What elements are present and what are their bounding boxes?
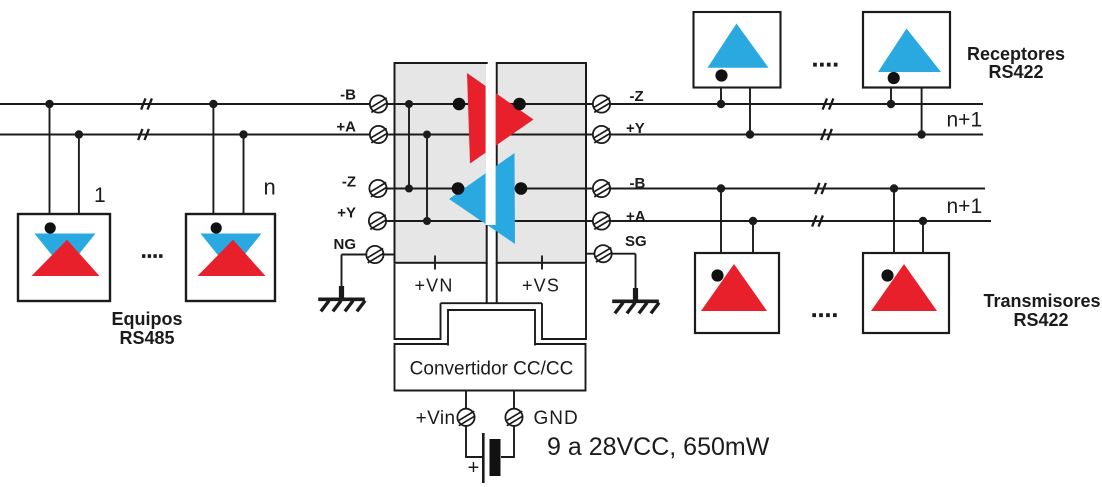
svg-text:1: 1 <box>94 184 106 207</box>
wire cross-link -B/-Z <box>408 104 410 189</box>
terminal -Z right <box>593 95 610 112</box>
junction dot -B / transmisor n+1 <box>890 184 898 192</box>
wire equipo n pin A <box>243 135 245 216</box>
wire receptor 1 pin Y <box>749 88 751 135</box>
driver triangle red (left to right) <box>467 73 534 164</box>
wire transmisor 1 pin B <box>720 189 722 254</box>
svg-text:SG: SG <box>625 233 647 250</box>
pin +VS tick <box>541 256 543 270</box>
wire receptor 1 pin Z <box>720 88 722 104</box>
wire +Y to +A through converter <box>370 220 991 222</box>
junction dot cross-link top <box>405 100 413 108</box>
equipo RS485 box n <box>186 214 275 301</box>
neck to converter <box>448 310 535 346</box>
junction dot blue input <box>515 182 528 195</box>
terminal +Y left <box>369 212 386 229</box>
wire receptor n+1 pin Y <box>921 88 923 135</box>
svg-text:n+1: n+1 <box>947 195 983 218</box>
wire GND from converter <box>513 391 515 410</box>
wire NG stub <box>342 255 395 288</box>
junction dot +A / equipo 1 <box>75 130 83 138</box>
wire +A bus (left, y=134.5) <box>0 134 488 136</box>
svg-text:+Vin: +Vin <box>416 408 456 429</box>
transmisor RS422 box n+1 <box>863 253 949 333</box>
wire equipo n pin B <box>212 104 214 215</box>
gap border right extension <box>496 263 498 303</box>
wire GND to battery <box>501 426 514 457</box>
svg-text:Transmisores: Transmisores <box>983 291 1100 311</box>
terminal GND <box>505 409 522 426</box>
svg-text:+: + <box>468 457 480 479</box>
terminal +Y right <box>593 126 610 143</box>
svg-text:-B: -B <box>340 87 356 104</box>
wire +A to +Y through converter <box>386 134 983 136</box>
svg-text:+A: +A <box>626 208 646 225</box>
wire transmisor n+1 pin A <box>922 221 924 253</box>
junction dot +Y / receptor n+1 <box>917 130 925 138</box>
ground NG <box>318 286 365 311</box>
svg-text:-Z: -Z <box>630 88 644 105</box>
wire -B bus (left, y=104) <box>0 103 488 105</box>
junction dot -Z / receptor n+1 <box>887 100 895 108</box>
junction dot cross-link +A <box>423 131 431 139</box>
svg-text:Equipos: Equipos <box>112 309 183 329</box>
svg-text:+Y: +Y <box>337 205 356 222</box>
junction dot +A / transmisor n+1 <box>919 217 927 225</box>
terminal SG <box>595 245 612 262</box>
junction dot -B / equipo n <box>209 100 217 108</box>
svg-text:-B: -B <box>630 175 646 192</box>
terminal +A right <box>593 212 610 229</box>
junction dot blue output <box>452 182 465 195</box>
svg-text:9 a 28VCC, 650mW: 9 a 28VCC, 650mW <box>547 433 770 461</box>
svg-text:RS485: RS485 <box>119 328 174 348</box>
break mark +A bus <box>138 129 149 140</box>
junction dot +A / equipo n <box>239 130 247 138</box>
wire +Vin from converter <box>465 391 467 410</box>
supply box inner shelf <box>441 302 543 304</box>
terminal -Z left <box>369 180 386 197</box>
svg-text:n+1: n+1 <box>947 109 983 132</box>
wire cross-link +A/+Y <box>426 135 428 222</box>
wire equipo 1 pin B <box>49 104 51 215</box>
receptor RS422 box 1 <box>694 12 781 88</box>
supply box left outline <box>395 264 441 339</box>
label Receptores RS422 <box>967 44 1065 82</box>
junction dot +A / transmisor 1 <box>749 217 757 225</box>
wire +Vin to battery <box>466 426 482 457</box>
svg-text:+VN: +VN <box>414 276 453 296</box>
ellipsis dots between transmisores <box>812 313 836 317</box>
break mark +A line <box>812 215 823 226</box>
terminal +Vin <box>457 409 474 426</box>
junction dot cross-link -Z <box>405 185 413 193</box>
ellipsis dots between equipos <box>142 254 163 258</box>
wire transmisor n+1 pin B <box>893 189 895 254</box>
svg-text:n: n <box>264 175 276 200</box>
svg-text:RS422: RS422 <box>988 62 1043 82</box>
converter right gray half <box>497 63 586 263</box>
svg-text:+VS: +VS <box>522 276 560 296</box>
label Equipos RS485 <box>112 309 183 348</box>
svg-text:-Z: -Z <box>342 174 356 191</box>
break mark -Z line <box>823 98 834 109</box>
battery negative plate <box>490 439 501 476</box>
junction dot -B / transmisor 1 <box>717 184 725 192</box>
svg-text:NG: NG <box>334 236 357 253</box>
gap border left extension <box>486 263 488 303</box>
junction dot +Y / receptor 1 <box>746 130 754 138</box>
equipo RS485 box 1 <box>18 214 110 301</box>
ellipsis dots between receptores <box>813 63 837 67</box>
svg-text:RS422: RS422 <box>1013 310 1068 330</box>
break mark +Y line <box>821 129 832 140</box>
box Convertidor CC/CC <box>395 344 586 391</box>
terminal NG <box>366 246 383 263</box>
terminal -B right <box>593 180 610 197</box>
wire transmisor 1 pin A <box>752 221 754 253</box>
junction dot -Z / receptor 1 <box>717 100 725 108</box>
wire -B to -Z through converter <box>386 103 983 105</box>
svg-text:+Y: +Y <box>626 120 645 137</box>
wire equipo 1 pin A <box>78 135 80 216</box>
driver triangle blue (right to left) <box>449 153 515 244</box>
transmisor RS422 box 1 <box>695 253 779 333</box>
label Transmisores RS422 <box>983 291 1100 330</box>
svg-text:+A: +A <box>336 119 356 136</box>
isolation gap strip <box>486 64 496 225</box>
svg-text:GND: GND <box>534 408 579 429</box>
wire SG stub <box>586 254 636 289</box>
ground SG <box>612 288 659 313</box>
wire receptor n+1 pin Z <box>890 88 892 104</box>
break mark -B bus <box>141 98 152 109</box>
junction dot cross-link +Y <box>423 217 431 225</box>
terminal +A left <box>370 126 387 143</box>
wire -Z to -B through converter <box>370 188 985 190</box>
junction dot red input <box>453 98 466 111</box>
terminal -B left <box>370 95 387 112</box>
break mark -B line <box>815 183 826 194</box>
battery positive plate <box>482 433 485 483</box>
junction dot -B / equipo 1 <box>45 100 53 108</box>
svg-text:Convertidor CC/CC: Convertidor CC/CC <box>410 359 574 380</box>
pin +VN tick <box>434 256 436 270</box>
converter left gray half <box>395 63 487 263</box>
junction dot red output <box>513 98 526 111</box>
svg-text:Receptores: Receptores <box>967 44 1065 64</box>
receptor RS422 box n+1 <box>863 12 950 88</box>
supply box right outline <box>542 264 586 339</box>
